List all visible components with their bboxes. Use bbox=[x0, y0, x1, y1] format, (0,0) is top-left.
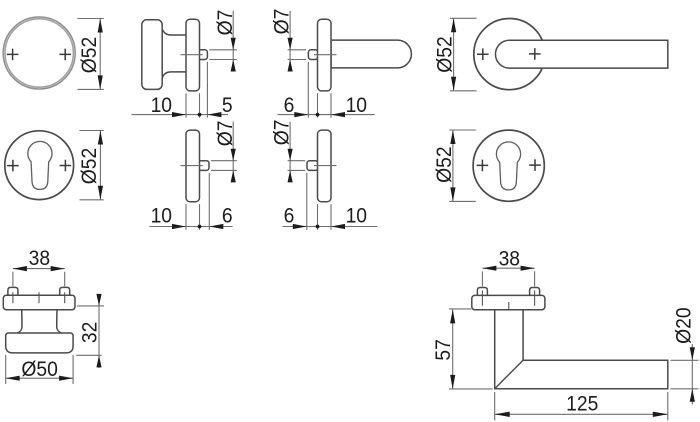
dimension 38 view J: dimension line bbox=[482, 267, 534, 269]
knob front view I: neck bbox=[21, 309, 57, 333]
dimension 38 view J: arrow left bbox=[482, 266, 496, 271]
screw cross left (view H) bbox=[477, 160, 489, 172]
dimension Ø50 view I: extension lines bbox=[6, 355, 73, 384]
dimension Ø7 view G: dimension line bbox=[289, 122, 291, 182]
dimension 32 view I: extension lines bbox=[76, 306, 104, 355]
dimension Ø52 view D: dimension line bbox=[453, 18, 455, 91]
dimension 10 view C: arrow left bbox=[331, 112, 345, 117]
lever bar front (view D) bbox=[495, 40, 667, 68]
dimension 125 view J: extension lines bbox=[495, 392, 668, 421]
dimension Ø7 view B: arrow down (outside above stem) bbox=[231, 38, 236, 50]
svg-text:Ø52: Ø52 bbox=[433, 146, 456, 182]
knob side view B: spindle stem bbox=[198, 50, 207, 60]
dimension Ø52 view H: extension lines bbox=[449, 130, 476, 201]
rose side view F: rose plate bbox=[186, 130, 200, 202]
screw cross left (view E) bbox=[7, 160, 19, 172]
dimension Ø50 view I: arrow left bbox=[6, 376, 20, 381]
dimension Ø52 view D: extension lines bbox=[450, 18, 477, 91]
svg-text:10: 10 bbox=[346, 205, 367, 228]
svg-text:5: 5 bbox=[222, 94, 233, 117]
dimension Ø52 view D: arrow up bbox=[451, 18, 456, 32]
dimension 125 view J: arrow right bbox=[653, 412, 668, 417]
dimension 6 view G: arrow right bbox=[293, 224, 307, 229]
svg-text:38: 38 bbox=[499, 248, 520, 271]
rose side view G: spindle stem left bbox=[307, 161, 318, 171]
dimension 6/10 view G: dimension line bbox=[283, 226, 378, 228]
dimension 10 view B: arrow right bbox=[172, 112, 186, 117]
lever side view C: rose plate bbox=[318, 19, 332, 91]
rose H: PZ rose front, circle Ø52 bbox=[473, 130, 544, 201]
dimension 57 view J: dimension line bbox=[452, 309, 454, 389]
dimension 10/5 view B: dimension line bbox=[132, 114, 229, 116]
dimension 38 view I: arrow left bbox=[13, 266, 27, 271]
dimension 6/10 view C: extension lines bbox=[308, 62, 331, 118]
dimension 6/10 view C: dimension line bbox=[278, 114, 375, 116]
svg-text:32: 32 bbox=[79, 322, 102, 343]
dimension Ø52 view E: arrow up bbox=[98, 131, 103, 145]
svg-text:Ø7: Ø7 bbox=[214, 10, 237, 36]
dimension Ø20 view J: arrow down (outside above) bbox=[690, 347, 695, 360]
dimension Ø7 view B: arrow up (outside below stem) bbox=[231, 60, 236, 72]
dimension node dot (view F plate face) bbox=[198, 225, 202, 229]
dimension Ø7 view C: arrow down bbox=[288, 38, 293, 50]
PZ keyhole (view H) bbox=[496, 142, 520, 190]
dimension 32 view I: arrow down (outside above) bbox=[96, 294, 101, 306]
screw cross left (view D) bbox=[477, 48, 489, 60]
dimension 32 view I: dimension line bbox=[98, 294, 100, 368]
screw lug right (view I) bbox=[60, 287, 70, 295]
dimension Ø7 view C: extension lines bbox=[288, 50, 307, 60]
dimension 10/6 view F: dimension line bbox=[150, 226, 233, 228]
screw cross left (view A) bbox=[7, 49, 19, 61]
screw cross right (view E) bbox=[60, 160, 72, 172]
dimension 6/10 view G: extension lines bbox=[307, 173, 331, 230]
dimension Ø50 view I: dimension line bbox=[6, 377, 73, 379]
dimension 6 view F: arrow left bbox=[209, 224, 223, 229]
screw cross right (view D) bbox=[529, 48, 541, 60]
dimension 10/5 view B: extension lines bbox=[186, 62, 207, 118]
dimension Ø20 view J: extension lines bbox=[671, 360, 699, 389]
elbow miter line (view J) bbox=[495, 360, 523, 389]
svg-text:6: 6 bbox=[284, 205, 295, 228]
svg-text:Ø52: Ø52 bbox=[78, 37, 101, 73]
rose flange (view I) bbox=[3, 295, 75, 310]
screw lug right (view J) bbox=[530, 288, 540, 296]
knob side view B: neck bbox=[161, 31, 187, 76]
dimension Ø7 view F: extension lines bbox=[211, 161, 237, 171]
rose side view F: spindle stem right bbox=[198, 161, 209, 171]
dimension 38 view J: extension lines bbox=[482, 271, 534, 286]
dimension 10/6 view F: extension lines bbox=[186, 173, 209, 230]
dimension 32 view I: arrow up (outside below) bbox=[96, 355, 101, 367]
dimension Ø7 view B: extension lines bbox=[209, 50, 237, 60]
svg-text:6: 6 bbox=[284, 94, 295, 117]
dimension Ø7 view G: extension lines bbox=[288, 161, 306, 171]
screw lug left (view I) bbox=[8, 287, 18, 295]
svg-text:10: 10 bbox=[346, 94, 367, 117]
dimension Ø7 view C: arrow up bbox=[288, 60, 293, 72]
svg-text:Ø7: Ø7 bbox=[271, 9, 294, 35]
svg-text:10: 10 bbox=[151, 205, 172, 228]
dimension Ø7 view F: dimension line bbox=[232, 122, 234, 182]
screw axis tick left (view I) bbox=[12, 292, 14, 303]
screw lug left (view J) bbox=[477, 288, 487, 296]
dimension 57 view J: arrow down bbox=[450, 375, 455, 389]
svg-text:125: 125 bbox=[566, 393, 598, 416]
dimension 10 view F: arrow right bbox=[172, 224, 186, 229]
dimension Ø52 view A: extension lines bbox=[78, 19, 104, 90]
svg-text:6: 6 bbox=[222, 205, 233, 228]
dimension Ø52 view H: dimension line bbox=[452, 130, 454, 201]
centerline through plate (view C) bbox=[314, 54, 337, 56]
screw cross right (view H) bbox=[529, 159, 541, 171]
dimension Ø52 view A: arrow down bbox=[98, 75, 103, 89]
screw axis tick right (view I) bbox=[64, 292, 66, 303]
dimension Ø52 view H: arrow down bbox=[450, 187, 455, 201]
dimension Ø20 view J: dimension line bbox=[691, 344, 693, 405]
svg-text:10: 10 bbox=[151, 94, 172, 117]
dimension Ø50 view I: arrow right bbox=[59, 376, 73, 381]
center tick (view I) bbox=[38, 292, 40, 303]
svg-text:Ø52: Ø52 bbox=[434, 36, 457, 72]
dimension Ø52 view D: arrow down bbox=[451, 77, 456, 91]
screw cross right (view A) bbox=[59, 49, 71, 61]
dimension node dot (view B plate face) bbox=[198, 113, 202, 117]
svg-text:Ø52: Ø52 bbox=[78, 148, 101, 184]
rose flange (view J) bbox=[472, 295, 545, 309]
knob side view B: rose plate bbox=[186, 19, 200, 91]
dimension Ø52 view E: arrow down bbox=[98, 186, 103, 200]
dimension node dot (view C plate face) bbox=[316, 113, 320, 117]
dimension Ø7 view G: arrow down bbox=[288, 149, 293, 161]
screw axis tick left (view J) bbox=[481, 290, 483, 305]
svg-text:57: 57 bbox=[432, 339, 455, 360]
PZ keyhole (view E) bbox=[28, 141, 52, 189]
dimension Ø7 view B: dimension line bbox=[232, 11, 234, 71]
rose A: knob rose front, circle Ø52 bbox=[3, 17, 75, 89]
svg-text:Ø20: Ø20 bbox=[673, 307, 696, 343]
dimension 125 view J: dimension line bbox=[495, 413, 668, 415]
dimension Ø52 view A: dimension line bbox=[99, 19, 101, 90]
dimension node dot (view G plate face) bbox=[316, 225, 320, 229]
centerline through plate (view G) bbox=[314, 165, 337, 167]
dimension Ø20 view J: arrow up (outside below) bbox=[690, 389, 695, 402]
centerline through plate (view F) bbox=[181, 165, 203, 167]
dimension Ø52 view A: arrow up bbox=[98, 19, 103, 33]
dimension 57 view J: extension lines bbox=[449, 309, 493, 389]
dimension 57 view J: arrow up bbox=[450, 309, 455, 323]
dimension 10 view G: arrow left bbox=[331, 224, 345, 229]
dimension Ø7 view F: arrow up bbox=[231, 170, 236, 182]
dimension Ø7 view G: arrow up bbox=[288, 170, 293, 182]
knob front view I: head bbox=[6, 333, 73, 353]
dimension 125 view J: arrow left bbox=[495, 412, 510, 417]
centerline through plate (view B) bbox=[181, 54, 203, 56]
dimension Ø7 view C: dimension line bbox=[289, 11, 291, 71]
dimension 38 view I: arrow right bbox=[51, 266, 65, 271]
dimension 6 view C: arrow right bbox=[294, 112, 308, 117]
svg-text:Ø7: Ø7 bbox=[271, 120, 294, 146]
dimension Ø52 view E: dimension line bbox=[99, 131, 101, 200]
dimension 38 view I: dimension line bbox=[13, 268, 65, 270]
rose side view G: rose plate bbox=[318, 130, 332, 202]
lever handle body view J: neck, elbow, grip bar bbox=[495, 310, 668, 389]
dimension 5 view B: arrow left bbox=[207, 112, 221, 117]
dimension 38 view I: extension lines bbox=[13, 272, 65, 287]
knob side view B: head bbox=[142, 20, 162, 90]
lever side view C: grip bar with rounded end bbox=[331, 40, 411, 68]
screw axis tick right (view J) bbox=[534, 290, 536, 305]
rose E: PZ rose front, circle Ø52 bbox=[5, 131, 74, 200]
dimension 38 view J: arrow right bbox=[521, 266, 535, 271]
svg-text:38: 38 bbox=[29, 247, 50, 270]
lever side view C: spindle stem bbox=[308, 50, 317, 60]
svg-text:Ø7: Ø7 bbox=[214, 121, 237, 147]
dimension Ø52 view E: extension lines bbox=[80, 131, 104, 200]
dimension Ø7 view F: arrow down bbox=[231, 149, 236, 161]
dimension Ø52 view H: arrow up bbox=[450, 130, 455, 144]
center tick (view J) bbox=[508, 302, 510, 313]
svg-text:Ø50: Ø50 bbox=[21, 359, 57, 382]
rose D: lever rose front, circle Ø52 bbox=[474, 19, 545, 90]
